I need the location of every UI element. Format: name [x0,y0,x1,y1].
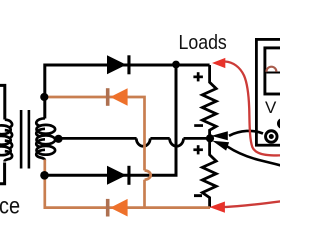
svg-text:Loads: Loads [179,32,227,54]
svg-text:V: V [265,98,277,117]
svg-text:ce: ce [0,192,20,219]
